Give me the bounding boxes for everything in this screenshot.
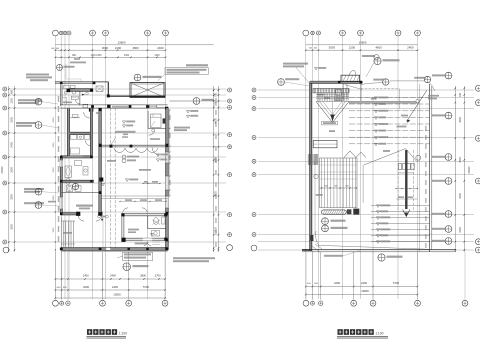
porch wall with folding door (left plan) <box>101 145 168 156</box>
svg-text:4800: 4800 <box>215 118 218 124</box>
svg-text:3900: 3900 <box>215 191 218 197</box>
terrace steps bottom-left <box>61 221 75 247</box>
annotation callout left of annex <box>57 58 87 82</box>
right dimension column (left plan) <box>213 86 219 252</box>
skylight box with X bracing (left plan) <box>130 83 165 98</box>
axis grid vertical lines (right plan) <box>306 36 418 299</box>
hatched gutter bar with end blocks <box>321 209 359 215</box>
chimney box on top parapet <box>341 71 360 82</box>
boxed annotation note above plan <box>158 64 209 80</box>
store room P06 label and door arcs <box>76 205 102 222</box>
flat roof hatch strip block lower-left <box>319 158 357 208</box>
svg-text:5700: 5700 <box>143 285 149 289</box>
axis bubbles left column (right plan) <box>251 88 257 251</box>
axis grid horizontal lines (right plan) <box>258 90 474 250</box>
svg-text:2100: 2100 <box>349 46 356 50</box>
kitchen fixtures <box>71 135 91 154</box>
axis grid vertical lines (left plan) <box>55 36 165 299</box>
svg-text:2800: 2800 <box>140 274 146 278</box>
rotated dim text strip left of plan <box>58 96 59 242</box>
svg-text:25300: 25300 <box>0 166 4 174</box>
svg-text:2600: 2600 <box>10 167 13 173</box>
svg-text:2400: 2400 <box>157 46 164 50</box>
callout bubble right of plan with level marks <box>169 98 214 131</box>
top dimension lines (right plan) <box>305 40 418 59</box>
labeled box below funnel <box>322 122 338 133</box>
axis grid horizontal lines (left plan) <box>9 89 226 242</box>
windows in right wall <box>165 152 168 208</box>
svg-text:2400: 2400 <box>83 274 89 278</box>
lower-right roof plank lines with level labels <box>371 204 429 243</box>
annex interior partition and fixtures <box>62 85 88 107</box>
right dimension columns (right plan) <box>455 86 471 252</box>
water tank box <box>313 141 337 148</box>
svg-text:1:100: 1:100 <box>375 332 383 336</box>
svg-text:600: 600 <box>56 48 59 50</box>
dormer hatch band top <box>313 88 349 93</box>
svg-text:700: 700 <box>215 92 218 97</box>
axis bubbles right column (right plan) <box>475 85 480 253</box>
axis bubbles top row (left plan) <box>53 30 169 36</box>
svg-text:1:100: 1:100 <box>119 332 127 336</box>
svg-text:2400: 2400 <box>407 46 414 50</box>
svg-text:2500: 2500 <box>53 117 55 123</box>
svg-text:3000: 3000 <box>53 227 55 233</box>
highlight gray band on roof edge <box>349 101 418 103</box>
top dimension lines (left plan) <box>51 40 213 58</box>
interior level annotations (left plan) <box>101 138 168 236</box>
svg-text:2700: 2700 <box>155 274 161 278</box>
svg-text:13800: 13800 <box>359 40 367 44</box>
wc room door arcs opening up <box>123 208 148 212</box>
left margin annotation notes (left plan) <box>16 74 59 209</box>
svg-text:3500: 3500 <box>459 157 462 163</box>
svg-text:5700: 5700 <box>393 281 399 285</box>
bottom dimension lines (left plan) <box>55 274 166 299</box>
hall annotation text and leader (left plan) <box>96 112 136 145</box>
left dimension column (left plan) <box>0 86 15 252</box>
upper-right roof plank lines with level labels <box>349 97 429 146</box>
annex terrace top edge (left plan) <box>55 81 108 84</box>
wc room bottom-right (left plan) <box>121 213 167 242</box>
ridge flanking dash-dot lines <box>398 150 414 210</box>
valley V at ridge base <box>403 210 410 218</box>
roof top parapet gray band <box>310 81 363 84</box>
extra corner bubble bottom-right <box>462 300 468 306</box>
wc room exterior door at bottom <box>135 238 160 245</box>
svg-text:2300: 2300 <box>215 227 218 233</box>
svg-text:2600: 2600 <box>53 167 55 173</box>
plan title: roof plan 1:100 <box>337 329 388 338</box>
svg-text:3000: 3000 <box>102 46 109 50</box>
svg-text:2400: 2400 <box>361 281 367 285</box>
axis bubbles right column (left plan) <box>227 88 233 251</box>
svg-text:2000: 2000 <box>459 193 462 199</box>
roof valley funnel upper <box>316 93 349 123</box>
axis stems to bottom bubbles (right plan) <box>306 252 465 300</box>
axis bubbles bottom row (right plan) <box>303 300 420 306</box>
roof right edge <box>419 84 431 252</box>
svg-text:3000: 3000 <box>329 46 336 50</box>
svg-text:2400: 2400 <box>10 142 13 148</box>
bedroom top-right with bed (left plan) <box>148 111 166 135</box>
svg-text:600: 600 <box>314 48 317 50</box>
structures below chimney <box>317 83 399 109</box>
door tag callouts under porch wall <box>122 155 139 163</box>
svg-text:700: 700 <box>459 92 462 97</box>
svg-text:4800: 4800 <box>459 117 462 123</box>
bottom dimension lines (right plan) <box>305 281 418 295</box>
bottom annotation box and notes (left plan) <box>117 252 215 270</box>
dense hatch block at parapet mid <box>308 154 318 165</box>
roof annotations above plan (right) <box>278 57 435 91</box>
axis bubbles bottom row (left plan) <box>53 300 168 306</box>
interior spine wall gray band (left plan) <box>99 108 104 216</box>
terrace step edge and inner dims (left plan) <box>101 196 168 202</box>
bathroom fixtures (tub, wc, shower) <box>65 161 88 185</box>
svg-text:4600: 4600 <box>375 46 382 50</box>
hip diagonal top right with node <box>390 81 439 128</box>
dim ticks right outside wall <box>169 109 171 196</box>
svg-text:2900: 2900 <box>10 194 13 200</box>
svg-text:4200: 4200 <box>83 285 89 289</box>
svg-text:13800: 13800 <box>118 40 126 44</box>
plan title: first floor plan 1:100 <box>87 329 128 338</box>
roof callout on skylight <box>134 74 161 81</box>
roof ridge thick line <box>405 150 407 209</box>
gable triangles mid-left <box>344 151 366 158</box>
main top exterior wall (left plan) <box>60 105 168 110</box>
axis bubbles top row (right plan) <box>303 30 421 36</box>
svg-text:600: 600 <box>10 89 13 94</box>
utility strip with washer <box>66 185 81 192</box>
main bottom exterior wall gray band (left plan) <box>60 247 168 251</box>
svg-text:2400: 2400 <box>112 285 118 289</box>
wc room fixtures <box>152 217 166 236</box>
ridge dim rows <box>395 188 417 199</box>
annex left wall <box>60 82 62 106</box>
corridor tags above wc room <box>98 215 109 247</box>
main right exterior wall gray band (left plan) <box>165 108 168 250</box>
svg-text:3000: 3000 <box>10 224 13 230</box>
svg-text:13800: 13800 <box>361 289 369 293</box>
annex gray wall with corner columns <box>66 89 93 93</box>
svg-text:2500: 2500 <box>10 117 13 123</box>
axis stems to bottom bubbles (left plan) <box>55 252 165 300</box>
svg-text:300: 300 <box>215 101 218 106</box>
svg-text:4300: 4300 <box>124 55 130 57</box>
svg-text:2300: 2300 <box>459 227 462 233</box>
svg-text:600: 600 <box>309 48 312 50</box>
svg-text:600: 600 <box>51 48 54 50</box>
svg-text:2400: 2400 <box>53 142 55 148</box>
svg-text:4200: 4200 <box>334 281 340 285</box>
svg-text:1100 1300: 1100 1300 <box>91 55 102 57</box>
inter-plan annotation leaders <box>226 90 228 235</box>
svg-text:13800: 13800 <box>113 293 121 297</box>
left exterior wall segments (left plan) <box>60 108 103 247</box>
svg-text:2400: 2400 <box>110 274 116 278</box>
roof left parapet gray band <box>310 82 312 251</box>
gutter callout bubbles <box>322 218 348 232</box>
detail callout bubbles right margin (right plan) <box>432 72 452 244</box>
dormer box row at ridge <box>398 164 414 173</box>
dimension ticks along first axis line (left plan) <box>53 107 56 250</box>
canopy edge turning to skylight box <box>96 82 130 98</box>
svg-text:2100: 2100 <box>115 46 122 50</box>
roof bottom annotations <box>324 251 403 262</box>
roof bottom eave lines <box>302 231 456 252</box>
axis bubbles left column (left plan) <box>3 87 9 253</box>
svg-text:2000: 2000 <box>215 157 218 163</box>
svg-text:4800: 4800 <box>132 46 139 50</box>
wall detail callout in bath area <box>72 183 78 189</box>
svg-text:1300: 1300 <box>10 98 13 104</box>
svg-text:25300: 25300 <box>467 166 471 174</box>
level label strip along right parapet <box>425 126 426 248</box>
svg-text:2900: 2900 <box>53 195 55 201</box>
bottom-left corner details (right plan) <box>310 162 323 252</box>
hip peak diagonals <box>363 149 421 203</box>
